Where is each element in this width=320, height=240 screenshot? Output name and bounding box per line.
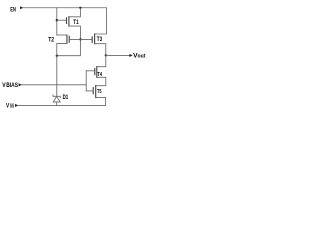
- wire T5 gate: [86, 90, 93, 92]
- wire VSS rail: [18, 104, 106, 106]
- svg-text:EN: EN: [10, 6, 16, 13]
- VSS input arrow: [15, 104, 18, 107]
- junction dot T1 source / gate net crossing: [79, 38, 81, 40]
- svg-text:BIAS: BIAS: [6, 83, 18, 89]
- node VBIAS label: [2, 82, 18, 89]
- wire T4 drain from output node: [97, 55, 106, 66]
- wire T1 source: [57, 26, 81, 56]
- svg-text:SS: SS: [10, 103, 14, 109]
- junction dot output node: [105, 54, 107, 56]
- wire D1 anode to VSS rail: [56, 102, 58, 106]
- diode D1 zener: [53, 95, 69, 102]
- transistor T3: [92, 34, 102, 44]
- wire VBIAS to gate tie: [22, 84, 87, 86]
- wire T1 gate: [57, 19, 66, 21]
- wire T4 gate: [86, 70, 94, 72]
- svg-text:T2: T2: [48, 36, 54, 43]
- wire T3 source to output node: [95, 44, 106, 56]
- EN input arrow: [20, 6, 23, 9]
- node Vout label: [133, 52, 146, 59]
- wire left vertical A (EN to T2 drain): [56, 8, 58, 35]
- wire T5 source to VSS rail: [96, 98, 106, 106]
- transistor T5: [93, 86, 101, 98]
- wire right vertical to T3 drain: [95, 8, 107, 34]
- wire T2 source: [57, 43, 67, 96]
- VBIAS input arrow: [19, 83, 22, 86]
- wire EN top rail: [23, 7, 107, 9]
- wire gate net T2-T3: [69, 38, 92, 40]
- transistor T4: [95, 67, 103, 78]
- svg-text:T3: T3: [97, 36, 103, 43]
- wire T2 drain: [57, 34, 67, 36]
- wire gate tie vertical T4-T5: [85, 71, 87, 91]
- svg-text:D1: D1: [63, 95, 69, 101]
- junction dot T1 gate tap: [56, 19, 58, 21]
- Vout output arrow: [129, 54, 132, 57]
- svg-text:T1: T1: [73, 19, 79, 26]
- wire T1 drain: [69, 8, 81, 17]
- junction dot T1 drain on rail: [79, 7, 81, 9]
- transistor T2: [48, 35, 69, 43]
- transistor T1: [67, 17, 80, 26]
- svg-text:T5: T5: [97, 89, 102, 95]
- node VSS label: [6, 102, 14, 109]
- wire Vout: [106, 54, 130, 56]
- junction dot source tie to left vertical: [56, 55, 58, 57]
- svg-text:Vout: Vout: [133, 52, 146, 59]
- wire T4 source / T5 drain: [96, 77, 106, 85]
- node EN label: [10, 6, 16, 13]
